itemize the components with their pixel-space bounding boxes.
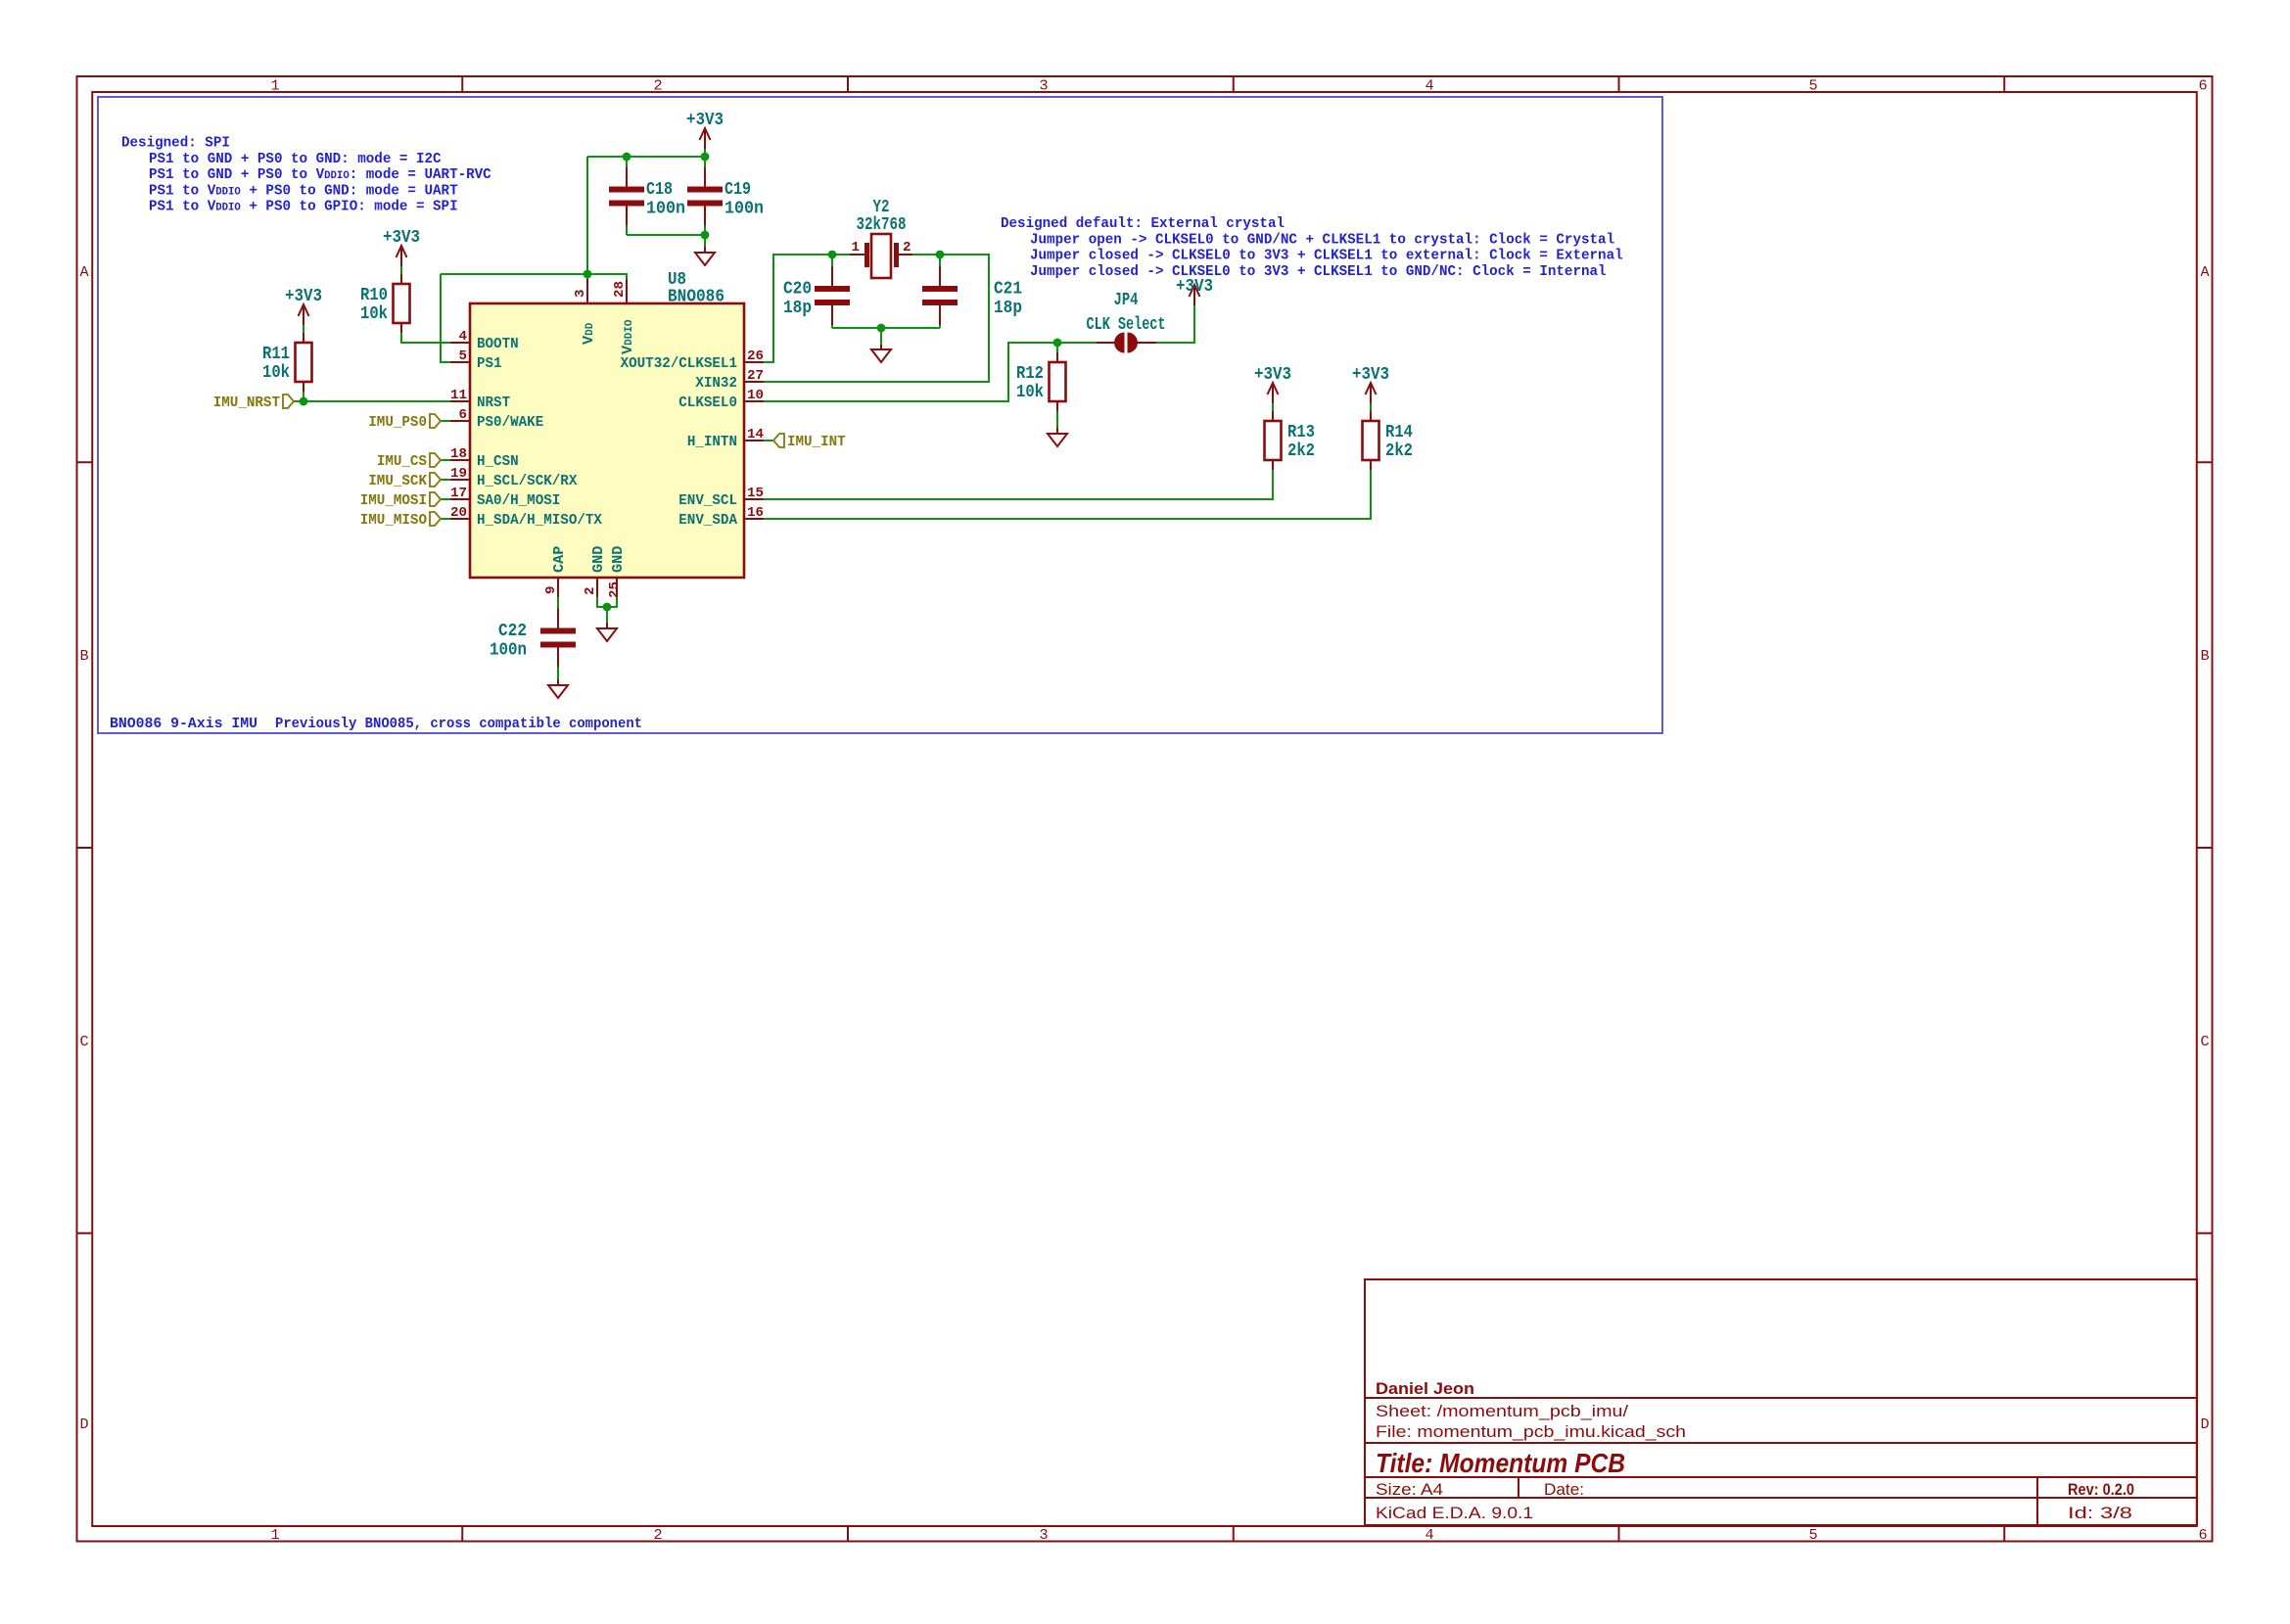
wire VDD top rail horizontal (587, 156, 705, 158)
svg-text:5: 5 (1808, 77, 1817, 95)
ground C22 (548, 646, 568, 698)
svg-text:Rev: 0.2.0: Rev: 0.2.0 (2068, 1481, 2134, 1499)
svg-text:3: 3 (573, 289, 588, 298)
wire C19 bottom (704, 223, 706, 235)
pin 28 VDDIO (612, 279, 636, 354)
pin 25 GND (607, 546, 627, 598)
IC U8 BNO086 (470, 270, 744, 578)
svg-text:NRST: NRST (477, 394, 510, 411)
svg-text:H_CSN: H_CSN (477, 452, 519, 470)
svg-text:GND: GND (609, 546, 627, 573)
resistor R10 10k (360, 274, 410, 333)
wire crystal pin1 stub (832, 254, 854, 255)
svg-text:IMU_MOSI: IMU_MOSI (360, 491, 427, 509)
hierarchical label IMU_MISO (360, 511, 441, 529)
svg-text:BOOTN: BOOTN (477, 335, 519, 352)
pin 14 H_INTN (687, 427, 765, 450)
svg-text:2: 2 (653, 77, 662, 95)
svg-text:Previously BNO085, cross compa: Previously BNO085, cross compatible comp… (275, 715, 642, 732)
svg-text:H_INTN: H_INTN (687, 433, 737, 450)
junction decoupling gnd (701, 231, 710, 240)
svg-text:18p: 18p (783, 299, 812, 318)
svg-text:Daniel Jeon: Daniel Jeon (1376, 1380, 1474, 1398)
svg-text:CAP: CAP (550, 546, 568, 573)
capacitor C20 18p (783, 266, 850, 325)
svg-text:10k: 10k (360, 304, 388, 324)
svg-text:Id: 3/8: Id: 3/8 (2068, 1504, 2132, 1522)
title block frame (1365, 1279, 2197, 1525)
capacitor C22 100n (490, 609, 576, 668)
svg-text:B: B (2200, 647, 2209, 665)
svg-text:XIN32: XIN32 (695, 374, 737, 392)
ground IC GND pins (597, 609, 617, 641)
wire R10 to BOOTN (401, 333, 450, 343)
hierarchical label IMU_MOSI (360, 491, 441, 509)
wire crystal caps ground rail (832, 327, 940, 329)
wire ENV_SDA net (764, 470, 1371, 519)
svg-text:BNO086: BNO086 (668, 288, 724, 307)
svg-text:H_SCL/SCK/RX: H_SCL/SCK/RX (477, 472, 578, 489)
frame column ticks (462, 76, 2004, 1542)
power +3V3 R10 pullup (383, 228, 420, 274)
svg-text:Jumper closed -> CLKSEL0 to 3V: Jumper closed -> CLKSEL0 to 3V3 + CLKSEL… (1030, 262, 1607, 280)
svg-text:5: 5 (1808, 1526, 1817, 1544)
group box BNO086 9-Axis IMU (98, 97, 1662, 733)
svg-text:C19: C19 (724, 180, 751, 200)
svg-text:PS1: PS1 (477, 354, 502, 372)
svg-text:Designed default: External cry: Designed default: External crystal (1001, 214, 1285, 232)
svg-text:5: 5 (458, 348, 467, 364)
svg-text:CLKSEL0: CLKSEL0 (678, 394, 737, 411)
pin 17 SA0/H_MOSI (450, 486, 560, 509)
svg-text:1: 1 (270, 1526, 279, 1544)
svg-text:Sheet: /momentum_pcb_imu/: Sheet: /momentum_pcb_imu/ (1376, 1402, 1628, 1420)
wire IMU_NRST to NRST (294, 400, 450, 402)
hierarchical label IMU_NRST (213, 394, 294, 411)
svg-text:1: 1 (851, 240, 860, 255)
power +3V3 R14 pullup (1352, 365, 1389, 411)
crystal Y2 32k768 (850, 198, 912, 278)
svg-text:9: 9 (543, 585, 559, 594)
wire C21 bottom (939, 321, 941, 328)
svg-text:C18: C18 (646, 180, 673, 200)
capacitor C21 18p (922, 266, 1022, 325)
wire C22 to ground (557, 666, 559, 676)
power +3V3 R11 pullup (285, 287, 322, 333)
frame row ticks (77, 462, 2213, 1233)
svg-text:A: A (79, 263, 89, 281)
wire decoupling ground rail (627, 234, 705, 236)
svg-text:IMU_CS: IMU_CS (377, 452, 427, 470)
svg-text:4: 4 (1425, 77, 1433, 95)
junction C18 top rail (623, 153, 631, 162)
pin 18 H_CSN (450, 446, 519, 470)
wire C18 top (626, 157, 628, 168)
svg-text:Title: Momentum PCB: Title: Momentum PCB (1376, 1448, 1625, 1478)
wire C21 top (939, 255, 941, 266)
svg-text:PS1 to GND + PS0 to VDDIO: mod: PS1 to GND + PS0 to VDDIO: mode = UART-R… (149, 165, 491, 183)
svg-text:+3V3: +3V3 (1254, 365, 1291, 385)
svg-text:IMU_PS0: IMU_PS0 (368, 413, 427, 431)
pin 10 CLKSEL0 (678, 388, 764, 411)
wire IMU_PS0 stub (441, 420, 450, 422)
svg-text:PS1 to GND + PS0 to GND: mode: PS1 to GND + PS0 to GND: mode = I2C (149, 150, 442, 167)
wire CLKSEL0 to JP4 (764, 343, 1098, 401)
svg-text:20: 20 (450, 505, 467, 521)
wire C19 top (704, 157, 706, 168)
pin 5 PS1 (450, 348, 502, 372)
svg-text:R11: R11 (262, 345, 290, 364)
svg-text:100n: 100n (490, 641, 527, 661)
pin 15 ENV_SCL (678, 486, 764, 509)
svg-text:10k: 10k (262, 363, 290, 383)
junction 3V3 rail (701, 153, 710, 162)
svg-text:6: 6 (2198, 77, 2207, 95)
resistor R14 2k2 (1363, 411, 1414, 470)
frame row labels (79, 263, 2210, 1433)
note text block: Designed SPI modes (121, 134, 491, 215)
ground crystal caps (871, 345, 891, 362)
group title text (110, 715, 642, 732)
svg-text:C: C (79, 1033, 88, 1050)
svg-text:+3V3: +3V3 (285, 287, 322, 306)
svg-text:Size: A4: Size: A4 (1376, 1480, 1443, 1499)
svg-text:JP4: JP4 (1114, 291, 1139, 310)
svg-text:2k2: 2k2 (1385, 441, 1413, 461)
svg-text:+3V3: +3V3 (1352, 365, 1389, 385)
wire XOUT32 to crystal pin1 (764, 255, 832, 362)
svg-text:B: B (79, 647, 88, 665)
jumper JP4 CLK Select (1087, 291, 1166, 353)
svg-text:11: 11 (450, 388, 467, 403)
wire VDD pin stub (586, 274, 588, 303)
svg-text:2: 2 (653, 1526, 662, 1544)
svg-text:BNO086 9-Axis IMU: BNO086 9-Axis IMU (110, 715, 257, 732)
frame column labels (270, 77, 2207, 1545)
svg-text:28: 28 (612, 281, 628, 298)
hierarchical label IMU_PS0 (368, 413, 441, 431)
wire H_INTN stub (764, 440, 773, 441)
hierarchical label IMU_CS (377, 452, 441, 470)
pin 2 GND (583, 546, 607, 597)
svg-text:27: 27 (747, 368, 764, 384)
power +3V3 decoupling rail (686, 111, 724, 157)
svg-text:26: 26 (747, 348, 764, 364)
capacitor C18 100n (609, 167, 685, 226)
svg-text:17: 17 (450, 486, 467, 501)
svg-text:ENV_SCL: ENV_SCL (678, 491, 737, 509)
junction VDD rail (584, 270, 592, 279)
wire R11 bottom stub (303, 392, 304, 401)
svg-text:100n: 100n (724, 200, 764, 219)
wire CAP pin to C22 (557, 597, 559, 611)
pin 26 XOUT32/CLKSEL1 (621, 348, 764, 372)
svg-text:IMU_NRST: IMU_NRST (213, 394, 280, 411)
wire crystal gnd stem (880, 328, 882, 345)
junction GND pins (603, 603, 612, 612)
wire VDDIO branch (587, 274, 627, 303)
pin 16 ENV_SDA (678, 505, 764, 529)
wire ENV_SCL net (764, 470, 1273, 499)
svg-text:2: 2 (583, 586, 598, 595)
svg-text:ENV_SDA: ENV_SDA (678, 511, 738, 529)
svg-text:Jumper closed -> CLKSEL0 to 3V: Jumper closed -> CLKSEL0 to 3V3 + CLKSEL… (1030, 247, 1623, 264)
wire IMU_SCK stub (441, 479, 450, 481)
pin 6 PS0/WAKE (450, 407, 543, 431)
pin 9 CAP (543, 546, 568, 597)
svg-text:SA0/H_MOSI: SA0/H_MOSI (477, 491, 560, 509)
svg-text:KiCad E.D.A. 9.0.1: KiCad E.D.A. 9.0.1 (1376, 1504, 1533, 1522)
power +3V3 R13 pullup (1254, 365, 1291, 411)
svg-text:GND: GND (589, 546, 607, 573)
wire C20 top (831, 255, 833, 266)
svg-text:R12: R12 (1016, 364, 1044, 384)
svg-text:32k768: 32k768 (857, 215, 907, 235)
resistor R13 2k2 (1265, 411, 1316, 470)
resistor R11 10k (262, 333, 312, 392)
svg-text:18p: 18p (994, 299, 1022, 318)
svg-text:PS1 to VDDIO + PS0 to GND: mod: PS1 to VDDIO + PS0 to GND: mode = UART (149, 181, 458, 199)
ground R12 (1048, 411, 1067, 446)
svg-text:14: 14 (747, 427, 765, 442)
wire IMU_MISO stub (441, 518, 450, 520)
svg-text:16: 16 (747, 505, 764, 521)
wire C18 bottom (626, 223, 628, 235)
svg-text:6: 6 (458, 407, 467, 423)
wire XIN32 to crystal pin2 (764, 255, 989, 382)
svg-text:100n: 100n (646, 200, 685, 219)
svg-text:+3V3: +3V3 (383, 228, 420, 248)
svg-text:D: D (2200, 1415, 2209, 1433)
svg-text:Jumper open -> CLKSEL0 to GND/: Jumper open -> CLKSEL0 to GND/NC + CLKSE… (1030, 230, 1614, 248)
wire IMU_MOSI stub (441, 498, 450, 500)
svg-text:6: 6 (2198, 1526, 2207, 1544)
svg-text:C20: C20 (783, 280, 812, 300)
wire C20 bottom (831, 321, 833, 328)
svg-text:A: A (2200, 263, 2210, 281)
svg-text:1: 1 (270, 77, 279, 95)
svg-text:10k: 10k (1016, 383, 1044, 402)
wire R12 top stub (1056, 343, 1058, 353)
note text block: clock source options (1001, 214, 1623, 280)
svg-text:Designed: SPI: Designed: SPI (121, 134, 230, 152)
svg-text:10: 10 (747, 388, 764, 403)
svg-text:D: D (79, 1415, 88, 1433)
svg-text:C: C (2200, 1033, 2209, 1050)
svg-text:15: 15 (747, 486, 764, 501)
resistor R12 10k (1016, 352, 1066, 411)
svg-text:C21: C21 (994, 280, 1022, 300)
hierarchical label IMU_INT (773, 433, 846, 450)
svg-text:R13: R13 (1287, 423, 1315, 442)
pin 3 VDD (573, 279, 597, 345)
svg-text:4: 4 (458, 329, 467, 345)
svg-text:IMU_INT: IMU_INT (787, 433, 846, 450)
pin 4 BOOTN (450, 329, 519, 352)
svg-text:PS0/WAKE: PS0/WAKE (477, 413, 543, 431)
svg-text:Date:: Date: (1544, 1480, 1584, 1499)
svg-text:R14: R14 (1385, 423, 1413, 442)
svg-text:CLK Select: CLK Select (1087, 315, 1166, 335)
junction R12/CLKSEL0 (1053, 339, 1062, 348)
pin 20 H_SDA/H_MISO/TX (450, 505, 603, 529)
pin 19 H_SCL/SCK/RX (450, 466, 578, 489)
svg-text:+3V3: +3V3 (686, 111, 724, 130)
svg-text:3: 3 (1039, 77, 1048, 95)
svg-text:PS1 to VDDIO + PS0 to GPIO: mo: PS1 to VDDIO + PS0 to GPIO: mode = SPI (149, 198, 458, 215)
wire IMU_CS stub (441, 459, 450, 461)
svg-text:File: momentum_pcb_imu.kicad_s: File: momentum_pcb_imu.kicad_sch (1376, 1422, 1686, 1441)
wire 3V3 to PS1/VDD rail (441, 273, 587, 275)
wire JP4 to 3V3 (1153, 313, 1194, 343)
power +3V3 JP4 select (1176, 277, 1213, 313)
svg-text:2: 2 (903, 240, 911, 255)
svg-text:H_SDA/H_MISO/TX: H_SDA/H_MISO/TX (477, 511, 603, 529)
wire GND pins join (597, 597, 617, 607)
svg-text:3: 3 (1039, 1526, 1048, 1544)
wire VDD rail drop to pins (586, 157, 588, 274)
svg-text:Y2: Y2 (873, 198, 890, 217)
svg-text:IMU_SCK: IMU_SCK (368, 472, 428, 489)
svg-text:4: 4 (1425, 1526, 1433, 1544)
svg-text:C22: C22 (498, 622, 527, 641)
capacitor C19 100n (687, 167, 764, 226)
svg-text:25: 25 (607, 581, 623, 598)
svg-text:+3V3: +3V3 (1176, 277, 1213, 297)
pin 11 NRST (450, 388, 510, 411)
svg-text:18: 18 (450, 446, 467, 462)
wire PS1 net vertical (441, 274, 450, 362)
junction crystal gnd (877, 324, 886, 333)
svg-text:IMU_MISO: IMU_MISO (360, 511, 427, 529)
hierarchical label IMU_SCK (368, 472, 441, 489)
ground decoupling caps (695, 235, 715, 265)
svg-text:19: 19 (450, 466, 467, 482)
junction R11/NRST (300, 397, 308, 406)
svg-text:2k2: 2k2 (1287, 441, 1315, 461)
junction crystal pin1 (828, 251, 837, 259)
pin 27 XIN32 (695, 368, 764, 392)
svg-text:XOUT32/CLKSEL1: XOUT32/CLKSEL1 (621, 354, 737, 372)
junction crystal pin2 (936, 251, 945, 259)
svg-text:R10: R10 (360, 286, 388, 305)
wire crystal pin2 stub (909, 254, 940, 255)
